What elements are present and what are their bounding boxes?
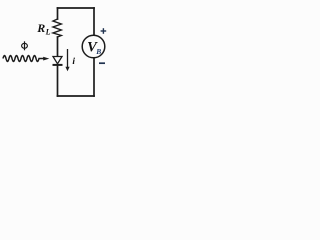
wire left-mid xyxy=(57,37,59,57)
wire left-top xyxy=(57,8,59,19)
minus sign xyxy=(99,62,105,64)
photon wavy arrow xyxy=(3,56,45,62)
current arrowhead xyxy=(65,67,69,71)
resistor RL xyxy=(53,19,61,37)
source VB circle xyxy=(82,35,105,58)
label phi xyxy=(22,41,28,50)
svg-text:L: L xyxy=(45,27,51,36)
wire right-bottom xyxy=(93,58,95,96)
svg-text:B: B xyxy=(95,47,101,56)
wire right-top xyxy=(93,8,95,35)
current arrow i xyxy=(67,49,69,68)
wire left-bottom xyxy=(57,65,59,96)
wire bottom xyxy=(58,95,95,97)
svg-text:R: R xyxy=(36,21,45,35)
plus sign xyxy=(101,28,107,34)
photodiode D1 cathode bar xyxy=(53,64,63,66)
svg-text:i: i xyxy=(72,57,75,67)
wire top xyxy=(58,7,95,9)
photon arrowhead xyxy=(43,57,49,61)
photodiode D1 triangle xyxy=(53,57,62,64)
